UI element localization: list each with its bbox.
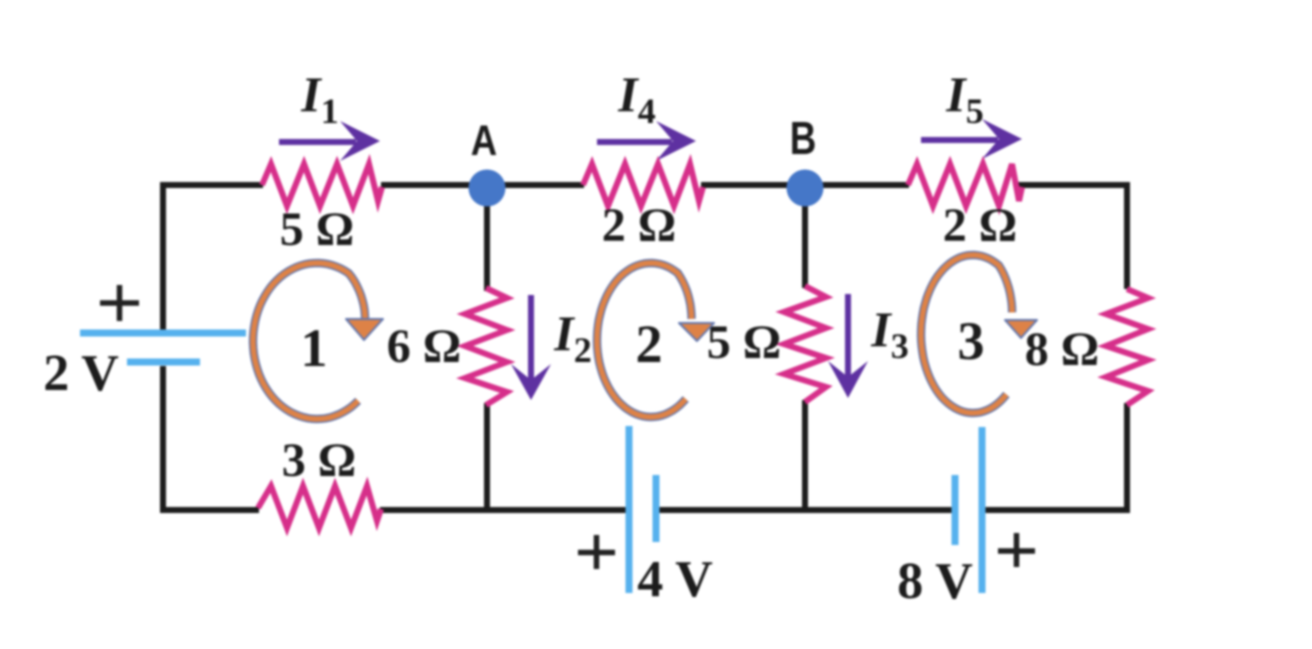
resistor 6 ohm (vertical below A) bbox=[465, 288, 507, 405]
svg-text:B: B bbox=[790, 112, 817, 164]
svg-text:2 V: 2 V bbox=[43, 345, 119, 402]
svg-text:3: 3 bbox=[958, 311, 985, 371]
battery 2V short plate bbox=[127, 359, 200, 366]
wire top right segment bbox=[1018, 182, 1130, 188]
battery 2V long plate bbox=[80, 330, 246, 337]
svg-text:3 Ω: 3 Ω bbox=[282, 434, 356, 487]
svg-text:8 V: 8 V bbox=[897, 553, 973, 610]
current I1 arrow bbox=[279, 121, 380, 161]
current I2 arrow bbox=[511, 295, 551, 400]
battery 8V short plate bbox=[952, 475, 959, 545]
svg-text:I2: I2 bbox=[553, 305, 591, 370]
svg-text:I1: I1 bbox=[300, 66, 338, 131]
wire left vertical lower bbox=[160, 366, 166, 513]
wire right vertical upper bbox=[1124, 182, 1130, 289]
battery 4V plus sign bbox=[578, 535, 615, 569]
node A dot bbox=[469, 170, 506, 207]
wire below 6 ohm resistor bbox=[484, 403, 490, 513]
svg-text:8 Ω: 8 Ω bbox=[1025, 323, 1099, 376]
resistor 3 ohm (bottom) bbox=[258, 486, 381, 528]
svg-text:2 Ω: 2 Ω bbox=[602, 199, 676, 252]
svg-text:5 Ω: 5 Ω bbox=[707, 316, 781, 369]
svg-text:6 Ω: 6 Ω bbox=[387, 320, 461, 373]
battery 8V long plate bbox=[979, 427, 986, 593]
svg-text:2: 2 bbox=[636, 314, 663, 374]
battery 4V short plate bbox=[653, 475, 660, 542]
battery 8V plus sign bbox=[998, 533, 1035, 567]
resistor 8 ohm (right side) bbox=[1106, 289, 1148, 405]
resistor R4 2 ohm (top middle) bbox=[583, 164, 703, 206]
wire below 5 ohm vertical resistor bbox=[802, 400, 808, 513]
svg-text:I5: I5 bbox=[945, 66, 983, 131]
wire right vertical lower bbox=[1124, 403, 1130, 513]
svg-text:5 Ω: 5 Ω bbox=[280, 203, 354, 256]
svg-text:I4: I4 bbox=[617, 66, 655, 131]
mesh loop 1 arc bbox=[253, 263, 383, 419]
wire left vertical upper bbox=[160, 182, 166, 331]
svg-text:2 Ω: 2 Ω bbox=[943, 199, 1017, 252]
current I5 arrow bbox=[921, 119, 1022, 159]
resistor R5 2 ohm (top right) bbox=[908, 164, 1022, 206]
svg-text:A: A bbox=[471, 117, 497, 164]
svg-text:1: 1 bbox=[301, 318, 328, 378]
wire bottom left after 3 ohm bbox=[380, 507, 629, 513]
wire bottom right segment bbox=[983, 507, 1130, 513]
current I3 arrow bbox=[828, 294, 868, 398]
wire bottom middle segment bbox=[657, 507, 954, 513]
node B dot bbox=[787, 170, 824, 207]
svg-text:I3: I3 bbox=[870, 301, 908, 366]
wire node B vertical bbox=[802, 187, 808, 288]
wire top left horizontal bbox=[160, 182, 263, 188]
svg-text:4 V: 4 V bbox=[637, 551, 713, 608]
resistor 5 ohm (vertical below B) bbox=[784, 286, 826, 402]
wire node A vertical bbox=[484, 187, 490, 291]
wire top B segment bbox=[701, 182, 909, 188]
wire top A segment bbox=[381, 182, 584, 188]
mesh loop 2 arc bbox=[597, 263, 714, 417]
resistor R1 5 ohm (top left) bbox=[262, 164, 382, 206]
wire bottom left segment bbox=[160, 507, 259, 513]
current I4 arrow bbox=[597, 121, 696, 161]
mesh loop 3 arc bbox=[921, 255, 1037, 413]
battery 2V plus sign bbox=[100, 285, 139, 321]
battery 4V long plate bbox=[626, 426, 633, 593]
